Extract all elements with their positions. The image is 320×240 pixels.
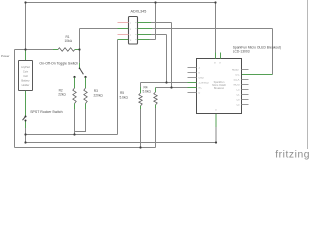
svg-text:3.3V/VDD: 3.3V/VDD — [199, 83, 210, 85]
wire power left down — [14, 50, 16, 148]
wire ADXL vcc feed — [155, 3, 157, 40]
pin labels OLED top and bottom inside — [214, 63, 221, 112]
wire power row — [15, 49, 54, 51]
wire R2 bottom — [74, 109, 76, 135]
svg-text:D/C: D/C — [236, 75, 240, 77]
svg-text:SCLK: SCLK — [233, 80, 239, 82]
resistor R5 — [140, 87, 142, 93]
wire ground rail L1 — [26, 134, 118, 136]
svg-text:22kΩ: 22kΩ — [58, 93, 66, 97]
wire ground rail L2 — [26, 142, 217, 144]
wire ADXL right pin1 to OLED left pin5 — [151, 22, 172, 24]
svg-text:GND: GND — [199, 78, 204, 80]
pin stubs ADXL right — [138, 22, 152, 24]
pin stubs OLED left — [188, 68, 197, 93]
resistor R4 — [155, 88, 157, 93]
battery BT1 LilyPad coin cell holder — [19, 61, 33, 91]
wire power bottom rail — [15, 147, 156, 149]
svg-text:RESET: RESET — [232, 70, 240, 72]
svg-text:Power: Power — [1, 54, 10, 58]
svg-text:NC: NC — [199, 88, 203, 90]
wire toggle vertical — [79, 29, 81, 63]
pin stubs OLED top — [215, 53, 217, 59]
pin stubs OLED right — [242, 70, 249, 105]
svg-text:LilyPad: LilyPad — [21, 65, 30, 69]
wire ADXL right pin3 to OLED left pin4 — [151, 34, 167, 36]
svg-text:LCD-13003: LCD-13003 — [233, 49, 250, 53]
svg-text:CS: CS — [236, 90, 240, 92]
accelerometer U1 ADXL345 — [129, 17, 138, 45]
pin marks ADXL inside — [130, 23, 132, 42]
wire R3 bottom jog — [75, 109, 86, 132]
display U2 SparkFun Micro OLED breakout — [197, 59, 242, 114]
wire R4 bottom — [155, 108, 157, 148]
svg-text:G: G — [215, 110, 217, 112]
svg-text:On-Off-On Toggle Switch: On-Off-On Toggle Switch — [39, 61, 78, 65]
wire OLED top feed — [215, 3, 217, 53]
svg-text:5.6kΩ: 5.6kΩ — [120, 96, 129, 100]
pin labels OLED right inside — [232, 70, 240, 107]
svg-text:220kΩ: 220kΩ — [94, 94, 104, 98]
resistor R2 — [74, 78, 76, 89]
wire ADXL left pin4 ground — [118, 39, 129, 41]
wire SDA row to OLED — [156, 87, 197, 89]
svg-text:SPST Rocker Switch: SPST Rocker Switch — [30, 110, 62, 114]
wire R5 bottom — [140, 109, 142, 148]
svg-text:Holder: Holder — [22, 83, 30, 87]
svg-text:Coin: Coin — [23, 70, 29, 74]
svg-text:Battery: Battery — [21, 79, 30, 83]
pin stub ADXL left3 unconnected — [118, 34, 129, 36]
pin stub ADXL left1 unconnected — [118, 22, 129, 24]
wire ADXL right pin2 to OLED right pin2 — [152, 28, 273, 30]
svg-text:10kΩ: 10kΩ — [65, 39, 73, 43]
right page edge — [307, 0, 309, 149]
svg-text:Breakout: Breakout — [214, 87, 224, 90]
svg-text:R3: R3 — [94, 89, 98, 93]
svg-text:5.6kΩ: 5.6kΩ — [143, 89, 152, 93]
wire battery plus vertical — [25, 3, 27, 50]
svg-text:ADXL345: ADXL345 — [131, 9, 147, 13]
toggle switch S1 — [79, 63, 81, 68]
wire OLED bottom pin down — [215, 127, 217, 143]
pin labels OLED left inside — [199, 68, 210, 95]
svg-text:R5: R5 — [120, 91, 124, 95]
resistor R1 — [58, 48, 75, 51]
wire to ADXL left pin2 — [80, 28, 118, 30]
svg-text:MOSI: MOSI — [234, 85, 240, 87]
wire SCL row to OLED — [141, 82, 197, 84]
svg-text:z: z — [130, 35, 131, 37]
resistor R3 — [85, 78, 87, 89]
svg-text:Cell: Cell — [23, 74, 28, 78]
svg-text:fritzing: fritzing — [275, 150, 310, 161]
wire switch chain — [25, 50, 27, 61]
rocker switch S2 — [23, 117, 26, 121]
wire top rail — [26, 2, 216, 4]
